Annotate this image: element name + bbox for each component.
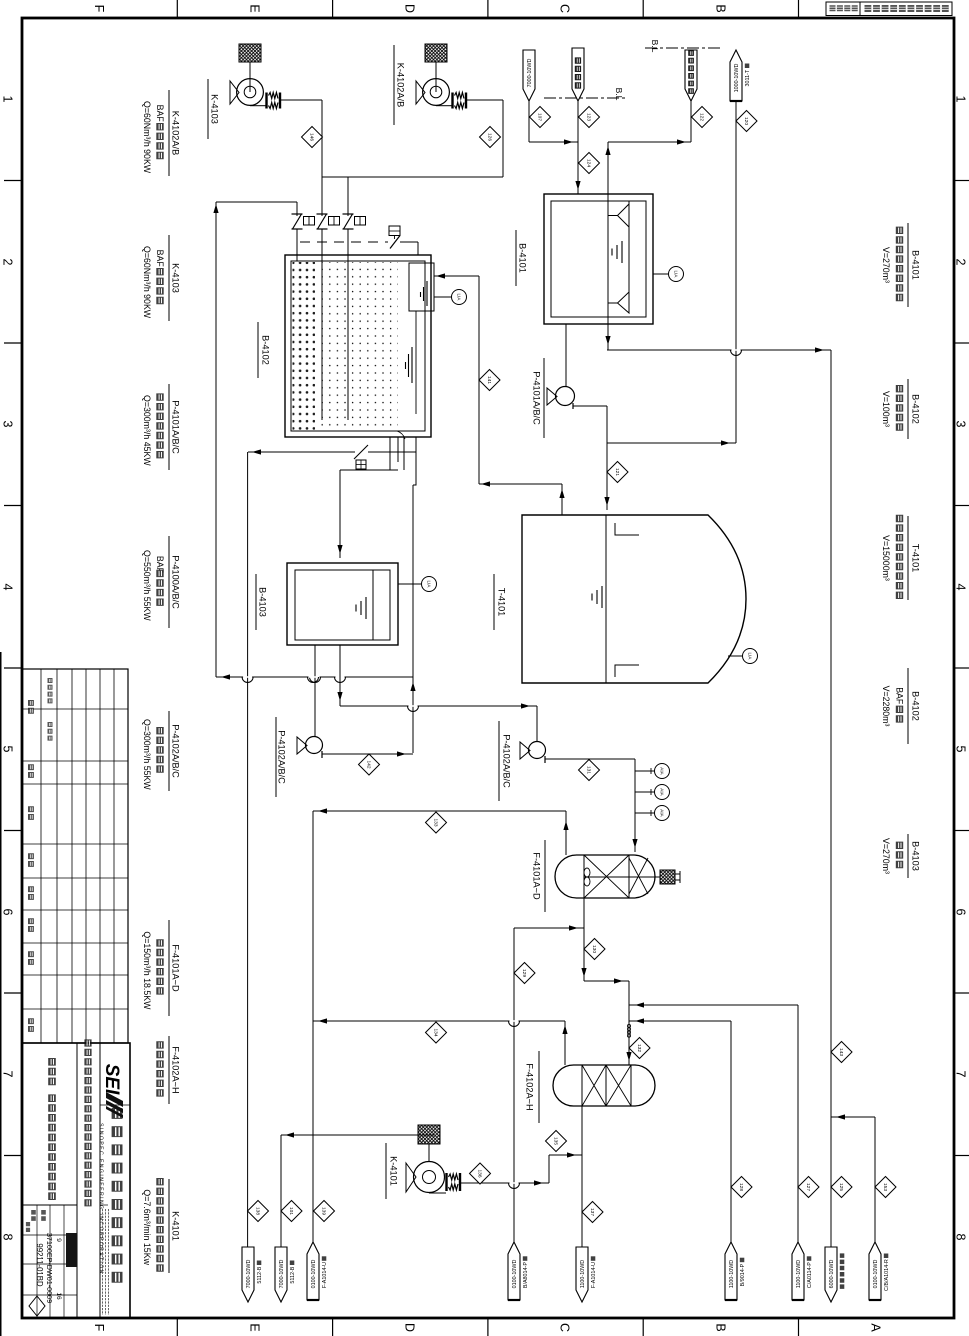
- level mark B-4102 clearwell: [426, 281, 428, 306]
- svg-text:6: 6: [1, 909, 15, 916]
- line diamond 129: [514, 963, 535, 984]
- wire: B-4102 drain to B-4103: [340, 469, 398, 471]
- svg-text:B/A8014-P: B/A8014-P: [523, 1262, 529, 1288]
- inlet flag DW01-0007: [523, 50, 535, 101]
- inlet flag from P-4109/B: [725, 1242, 737, 1300]
- svg-text:V=100m³: V=100m³: [881, 391, 891, 427]
- svg-text:1100-10WD: 1100-10WD: [580, 1260, 586, 1288]
- inlet flag from P-4108A/B: [508, 1242, 520, 1300]
- svg-text:B-4101: B-4101: [518, 243, 528, 273]
- svg-text:142: 142: [365, 760, 371, 768]
- wire: from T-4101 top: [479, 483, 562, 485]
- line diamond 128: [731, 1177, 752, 1198]
- svg-text:123: 123: [585, 113, 591, 121]
- svg-text:153: 153: [882, 1183, 888, 1191]
- svg-text:B/9014-P: B/9014-P: [740, 1263, 746, 1286]
- instrument LIA on B-4102: [434, 296, 451, 298]
- line diamond 124: [579, 153, 600, 174]
- svg-text:B.L: B.L: [650, 40, 660, 53]
- inlet flag from R-4101A/B/C: [869, 1242, 881, 1300]
- title block: [22, 1043, 130, 1318]
- svg-text:125: 125: [838, 1183, 844, 1191]
- line diamond 121: [607, 462, 628, 483]
- svg-text:134: 134: [432, 1028, 438, 1036]
- instrument LIA on T-4101: [728, 655, 742, 657]
- inlet flag from U-4101A-F: [307, 1242, 319, 1300]
- wire: line to flocculant flag: [690, 101, 692, 142]
- inlet flag flocculant: [685, 50, 697, 101]
- instruments AIA: [635, 770, 654, 772]
- svg-text:0100-10WD: 0100-10WD: [873, 1260, 879, 1289]
- line diamond 120: [736, 111, 757, 132]
- svg-text:137: 137: [589, 1208, 595, 1216]
- svg-text:B-4101: B-4101: [910, 250, 920, 280]
- svg-text:143: 143: [838, 1048, 844, 1056]
- svg-text:P-4102A/B/C: P-4102A/B/C: [170, 724, 180, 778]
- svg-text:K-4102A/B: K-4102A/B: [170, 111, 180, 155]
- svg-text:P-4100A/B/C: P-4100A/B/C: [170, 555, 180, 609]
- svg-text:9: 9: [55, 1238, 62, 1242]
- svg-text:E: E: [248, 4, 262, 12]
- svg-text:BAF: BAF: [155, 105, 165, 123]
- line diamond 101: [281, 1201, 302, 1222]
- svg-text:3011-T: 3011-T: [745, 69, 751, 86]
- svg-text:4: 4: [1, 584, 15, 591]
- svg-text:128: 128: [738, 1183, 744, 1191]
- svg-text:C: C: [558, 1323, 572, 1332]
- boundary line B.L: [544, 97, 627, 99]
- svg-text:Q=7.6m³/min 15Kw: Q=7.6m³/min 15Kw: [142, 1189, 152, 1265]
- blower K-4102A/B: [416, 44, 503, 109]
- svg-text:LIA: LIA: [426, 581, 431, 589]
- svg-text:BAF: BAF: [155, 250, 165, 268]
- svg-text:141: 141: [486, 376, 492, 384]
- wire: backwash manifold: [216, 676, 413, 678]
- level mark T-4101: [601, 586, 603, 608]
- svg-text:135: 135: [552, 1137, 558, 1145]
- line diamond 142: [359, 754, 380, 775]
- svg-text:LIA: LIA: [673, 271, 678, 279]
- svg-text:8: 8: [954, 1234, 968, 1241]
- line diamond 107: [530, 107, 551, 128]
- svg-text:1: 1: [954, 96, 968, 103]
- pump P-4102A/B/C left: [297, 737, 413, 759]
- svg-text:C/A0114-P: C/A0114-P: [807, 1262, 813, 1288]
- svg-text:B-4102: B-4102: [910, 394, 920, 424]
- svg-text:F-4102A~H: F-4102A~H: [170, 1046, 180, 1093]
- approval stamp box: [826, 2, 952, 16]
- line diamond 141: [479, 370, 500, 391]
- svg-text:K-4102A/B: K-4102A/B: [396, 63, 406, 107]
- level mark B-4102: [411, 347, 413, 383]
- svg-text:8: 8: [1, 1234, 15, 1241]
- wire: P-4101 discharge: [606, 406, 608, 510]
- line diamond 136: [470, 1163, 491, 1184]
- svg-text:121: 121: [614, 468, 620, 476]
- svg-text:D: D: [403, 1323, 417, 1332]
- wire: dosing from P-4109 flag: [730, 1021, 732, 1247]
- svg-text:AIA: AIA: [659, 767, 664, 775]
- svg-text:37100EP-DW01-0009: 37100EP-DW01-0009: [45, 1233, 54, 1303]
- wire: F-4102 feed: [628, 981, 630, 1065]
- pump P-4101A/B/C: [547, 387, 607, 410]
- svg-text:131: 131: [585, 766, 591, 774]
- svg-text:7: 7: [1, 1071, 15, 1078]
- svg-text:B-4103: B-4103: [258, 587, 268, 617]
- B-4102 bottom backwash trough: [390, 437, 416, 485]
- svg-text:V=2280m³: V=2280m³: [881, 686, 891, 727]
- svg-text:F-4102A~H: F-4102A~H: [525, 1063, 535, 1110]
- line diamond 125: [831, 1177, 852, 1198]
- svg-text:139: 139: [320, 1207, 326, 1215]
- svg-text:T-4101: T-4101: [910, 544, 920, 573]
- svg-text:2: 2: [954, 259, 968, 266]
- svg-text:E: E: [248, 1323, 262, 1331]
- wire: F-4101 backwash waste: [565, 811, 567, 855]
- line diamond 146: [302, 127, 323, 148]
- valve on B-4102 inlet trough: [300, 241, 388, 243]
- tank B-4103: [287, 563, 398, 645]
- wire: backwash supply riser to B-4102: [215, 202, 217, 677]
- svg-text:BAF: BAF: [894, 687, 904, 705]
- svg-text:138: 138: [254, 1207, 260, 1215]
- svg-text:136: 136: [476, 1169, 482, 1177]
- svg-text:K-4103: K-4103: [170, 263, 180, 293]
- wire: B-4101 drain east: [607, 349, 831, 351]
- wire: DW01-0007 inlet line: [528, 101, 530, 142]
- wire: raw water feed to B-4101: [577, 101, 579, 194]
- wire: B-4101 bottom to pump P-4101: [565, 324, 567, 387]
- wire: F-4101 outlet: [583, 898, 585, 981]
- svg-text:3: 3: [954, 421, 968, 428]
- svg-text:F-4101A~D: F-4101A~D: [532, 852, 542, 900]
- svg-text:1000-10WD: 1000-10WD: [734, 64, 740, 93]
- svg-text:F-4101A~D: F-4101A~D: [170, 944, 180, 992]
- svg-text:5112-B: 5112-B: [290, 1266, 296, 1283]
- svg-text:129: 129: [521, 969, 527, 977]
- outlet flag to U-4101A-F: [576, 1247, 588, 1302]
- outlet flag to B-2115 a: [242, 1247, 254, 1302]
- wire: F-4101 feed: [634, 759, 636, 852]
- outlet flag steam condensate: [825, 1247, 837, 1302]
- svg-text:0100-10WD: 0100-10WD: [311, 1260, 317, 1289]
- blower K-4101: [406, 1125, 460, 1193]
- line diamond 135: [546, 1131, 567, 1152]
- svg-text:AIA: AIA: [659, 809, 664, 817]
- line diamond 143: [831, 1042, 852, 1063]
- svg-text:LIA: LIA: [456, 294, 461, 302]
- svg-text:16: 16: [55, 1292, 62, 1300]
- filter F-4101A~D walnut shell: [555, 855, 680, 898]
- svg-text:132: 132: [636, 1044, 642, 1052]
- svg-text:7000-10WD: 7000-10WD: [527, 59, 533, 88]
- wire: chemical feed from P-4108 flag: [513, 928, 515, 1247]
- line diamond 126: [480, 127, 501, 148]
- svg-text:0100-10WD: 0100-10WD: [512, 1260, 518, 1289]
- svg-text:101: 101: [288, 1207, 294, 1215]
- line diamond 122: [692, 107, 713, 128]
- svg-text:1100-10WD: 1100-10WD: [796, 1260, 802, 1288]
- svg-text:120: 120: [743, 117, 749, 125]
- wire: K-4103 discharge air line: [321, 100, 323, 216]
- svg-text:V=270m³: V=270m³: [881, 247, 891, 283]
- inlet flag raw water: [572, 48, 584, 101]
- line diamond 123: [579, 107, 600, 128]
- wire: K-4102A/B discharge air line: [502, 100, 504, 177]
- svg-text:P-4101A/B/C: P-4101A/B/C: [532, 371, 542, 425]
- svg-text:130: 130: [591, 945, 597, 953]
- spool piece: [627, 1024, 630, 1027]
- svg-text:1100-10WD: 1100-10WD: [729, 1260, 735, 1288]
- svg-text:Q=150m³/h 18.5KW: Q=150m³/h 18.5KW: [142, 931, 152, 1010]
- boundary line B.L 2: [645, 47, 721, 49]
- svg-text:F-A1014-U: F-A1014-U: [591, 1262, 597, 1288]
- line diamond 127: [798, 1177, 819, 1198]
- line diamond 130: [584, 939, 605, 960]
- svg-text:C: C: [558, 4, 572, 13]
- wire: P-4101 to T-1103 riser: [607, 442, 736, 444]
- outlet flag to B-2115 b: [275, 1247, 287, 1302]
- svg-text:F: F: [92, 1324, 106, 1332]
- revision table: [22, 669, 128, 1043]
- line diamond 132: [629, 1038, 650, 1059]
- svg-text:B-4103: B-4103: [910, 841, 920, 871]
- wire: F-4102 backwash waste: [564, 1021, 566, 1065]
- level mark B-4101: [621, 241, 623, 263]
- level mark B-4103: [365, 597, 367, 619]
- T-4101 internals: [605, 515, 607, 683]
- wire: riser from trough to pump discharge junction: [412, 485, 414, 753]
- wire: waste collect line x313: [312, 811, 314, 1247]
- svg-text:Q=60Nm³/h 90KW: Q=60Nm³/h 90KW: [142, 246, 152, 319]
- svg-text:2: 2: [1, 259, 15, 266]
- svg-text:B-4102: B-4102: [261, 335, 271, 365]
- svg-text:146: 146: [308, 133, 314, 141]
- svg-text:99211-01BD: 99211-01BD: [35, 1243, 44, 1287]
- svg-text:D: D: [403, 4, 417, 13]
- svg-text:V=270m³: V=270m³: [881, 838, 891, 874]
- line diamond 137: [582, 1202, 603, 1223]
- svg-text:127: 127: [805, 1183, 811, 1191]
- wire: K-4101 discharge: [460, 1182, 549, 1184]
- pump P-4102A/B/C right: [520, 742, 635, 764]
- svg-text:AIA: AIA: [659, 788, 664, 796]
- svg-text:126: 126: [486, 133, 492, 141]
- instrument LIA on B-4101: [653, 273, 668, 275]
- svg-text:P-4101A/B/C: P-4101A/B/C: [170, 400, 180, 454]
- wire: B-4101 internal overflow line: [607, 194, 609, 350]
- instrument LIA on B-4103: [398, 583, 421, 585]
- svg-text:Q=300m³/h 45KW: Q=300m³/h 45KW: [142, 395, 152, 466]
- wire: dosing from P-4110 flag: [797, 1005, 799, 1247]
- wire: B-4103 outlet 2: [339, 645, 341, 706]
- svg-text:124: 124: [585, 159, 591, 167]
- svg-text:V=15000m³: V=15000m³: [881, 535, 891, 581]
- svg-text:7000-10WD: 7000-10WD: [246, 1260, 252, 1289]
- filter F-4102A~H multimedia: [553, 1065, 655, 1106]
- line diamond 131: [579, 760, 600, 781]
- svg-text:Q=550m³/h 55KW: Q=550m³/h 55KW: [142, 550, 152, 621]
- svg-text:LIA: LIA: [747, 653, 752, 661]
- wire: R-4101 condensate: [874, 1117, 876, 1247]
- svg-text:K-4101: K-4101: [170, 1211, 180, 1241]
- svg-text:7: 7: [954, 1071, 968, 1078]
- svg-text:A: A: [869, 1323, 883, 1332]
- line diamond 133: [426, 812, 447, 833]
- svg-text:P-4102A/B/C: P-4102A/B/C: [277, 730, 287, 784]
- svg-text:5112-B: 5112-B: [257, 1266, 263, 1283]
- wire: T-4101 return to B-4102 clearwell: [434, 275, 479, 277]
- svg-text:Q=300m³/h 55KW: Q=300m³/h 55KW: [142, 719, 152, 790]
- svg-text:5: 5: [1, 746, 15, 753]
- svg-text:K-4101: K-4101: [389, 1156, 399, 1186]
- svg-text:Q=60Nm³/h 90KW: Q=60Nm³/h 90KW: [142, 101, 152, 174]
- tank B-4102 BAF filter: [285, 255, 434, 439]
- wire: to B-2115 second flag: [281, 1134, 313, 1136]
- wire: F-4102 outlet to U-4101: [581, 1106, 583, 1247]
- svg-text:P-4102A/B/C: P-4102A/B/C: [502, 734, 512, 788]
- wire: to T-1103 line: [735, 101, 737, 443]
- svg-text:F-A1014-U: F-A1014-U: [322, 1262, 328, 1288]
- sheet edge: [0, 652, 2, 1336]
- svg-text:B-4102: B-4102: [910, 691, 920, 721]
- svg-text:6: 6: [954, 909, 968, 916]
- svg-text:107: 107: [536, 113, 542, 121]
- svg-text:SEI: SEI: [101, 1064, 122, 1095]
- svg-text:K-4103: K-4103: [210, 94, 220, 124]
- svg-text:133: 133: [432, 818, 438, 826]
- svg-text:3: 3: [1, 421, 15, 428]
- valve row on B-4102: [292, 214, 315, 261]
- tank B-4101: [544, 194, 653, 324]
- tank T-4101 equalization: [522, 515, 746, 683]
- svg-text:B: B: [714, 1323, 728, 1331]
- line diamond 153: [875, 1177, 896, 1198]
- wire: backwash waste down to B-2115 flag: [247, 452, 249, 1247]
- svg-text:4: 4: [954, 584, 968, 591]
- svg-text:1: 1: [1, 96, 15, 103]
- blower K-4103: [230, 44, 322, 109]
- svg-text:7000-10WD: 7000-10WD: [279, 1260, 285, 1289]
- line diamond 138: [248, 1201, 269, 1222]
- outlet flag to T-1103 DW01-0001: [730, 50, 742, 101]
- svg-text:T-4101: T-4101: [497, 588, 507, 617]
- svg-text:B: B: [714, 4, 728, 12]
- svg-text:F: F: [92, 5, 106, 13]
- svg-text:C/B/A1014-R: C/B/A1014-R: [884, 1259, 890, 1291]
- svg-text:B.L: B.L: [614, 88, 624, 101]
- svg-text:122: 122: [698, 113, 704, 121]
- line diamond 134: [426, 1022, 447, 1043]
- line diamond 139: [314, 1201, 335, 1222]
- zone ticks: [4, 180, 22, 182]
- wire: B-4103 outlet 1: [314, 645, 316, 737]
- inlet flag from P-4110A/C: [792, 1242, 804, 1300]
- svg-text:6000-10WD: 6000-10WD: [829, 1260, 835, 1289]
- valve on backwash waste line: [248, 451, 355, 453]
- svg-text:5: 5: [954, 746, 968, 753]
